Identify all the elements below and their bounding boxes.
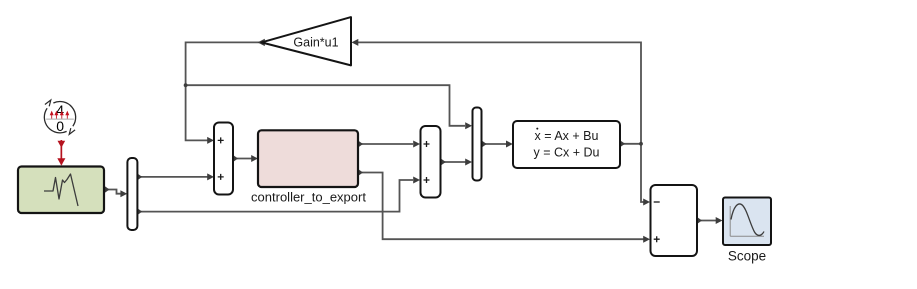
- svg-text:controller_to_export: controller_to_export: [251, 190, 366, 205]
- arrowhead: into Sum1 lower input: [207, 173, 214, 180]
- port: final Sum output: [697, 217, 702, 224]
- state-space block U1: [513, 121, 620, 168]
- arrowhead: into State-Space input: [506, 141, 513, 148]
- wire: final Sum output to Scope: [699, 220, 717, 222]
- wire: controller top output to Sum2 upper input: [360, 143, 414, 145]
- node J1 junction dot: [184, 83, 188, 87]
- port: Mux M2 output: [482, 141, 487, 148]
- port: Sum2 output: [441, 159, 446, 166]
- mux bar M2: [473, 108, 482, 181]
- svg-text:Gain*u1: Gain*u1: [293, 36, 338, 50]
- svg-text:0: 0: [56, 118, 64, 134]
- port: Sum1 output: [233, 155, 238, 162]
- arrowhead: into final Sum minus input: [643, 199, 650, 206]
- arrowheads at input ports: [120, 39, 722, 243]
- sum block S1: [214, 123, 233, 195]
- node J2 junction dot: [639, 142, 643, 146]
- output port chevrons: [105, 140, 703, 224]
- wire: State-Space output to node J2 and down to final Sum minus input: [622, 144, 644, 202]
- red rate-transition arrow into source block: [57, 140, 65, 166]
- port: controller top output: [358, 141, 363, 148]
- gain block Gain*u1: [261, 17, 351, 65]
- scope block: [723, 198, 771, 264]
- svg-text:y = Cx + Du: y = Cx + Du: [534, 145, 600, 159]
- arrowhead: into Sum1 upper input: [207, 137, 214, 144]
- wire: Sum1 output to controller input: [235, 158, 252, 160]
- wire: Signal source output to Demux input (jog): [108, 190, 121, 194]
- port: Demux bottom output: [137, 208, 142, 215]
- arrowhead: into Mux M2 lower input: [465, 159, 472, 166]
- port: Demux top output: [137, 173, 142, 180]
- port: controller bottom output: [358, 169, 363, 176]
- arrowhead: into Sum2 lower input: [413, 177, 420, 184]
- demux bar D1: [127, 158, 137, 230]
- controller_to_export block (pink): [251, 130, 366, 204]
- wire: controller bottom output to final Sum plus input: [360, 173, 644, 240]
- arrowhead: into final Sum plus input: [643, 236, 650, 243]
- sum block S2: [421, 126, 441, 198]
- wire: branch from node J1 to Mux M2 top input: [186, 85, 465, 126]
- port: State-Space output: [620, 140, 625, 147]
- arrowhead: into Gain input (pointing left): [352, 39, 359, 46]
- arrowhead: into controller input: [251, 155, 258, 162]
- svg-text:Scope: Scope: [728, 249, 766, 264]
- wire: Demux bottom output to Sum2 lower input: [139, 180, 413, 212]
- port: Signal source output: [105, 186, 110, 193]
- arrowhead: into Demux input: [120, 190, 127, 197]
- wire: Gain output to Sum1 upper input: [186, 42, 261, 140]
- wire: Mux M2 output to State-Space input: [484, 143, 507, 145]
- arrowhead: into Mux M2 top input: [465, 122, 472, 129]
- arrowhead: into Scope input: [716, 217, 723, 224]
- wire: Demux top output to Sum1 lower input: [139, 176, 208, 178]
- svg-text:x = Ax + Bu: x = Ax + Bu: [535, 129, 599, 143]
- sample-time badge (4/0 cycle icon): [44, 100, 75, 134]
- signal source block (green): [18, 167, 104, 214]
- final sum block S3: [651, 185, 698, 256]
- wire: Sum2 output to Mux M2 lower input: [443, 161, 466, 163]
- arrowhead: into Sum2 upper input: [413, 141, 420, 148]
- wire: feedback into Gain input (from node J2 up and left): [357, 42, 641, 143]
- arrowhead: at Gain output tip (pointing left): [258, 39, 265, 46]
- svg-text:4: 4: [56, 102, 64, 118]
